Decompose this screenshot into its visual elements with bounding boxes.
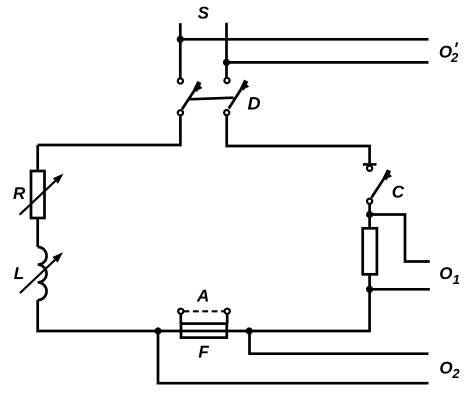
wire bus 1 (top line to O2') — [180, 38, 428, 41]
label O2 prime — [439, 42, 459, 65]
node junction below C — [366, 211, 373, 218]
svg-text:A: A — [196, 287, 209, 306]
resistor right branch — [363, 228, 377, 274]
switch D left blade — [182, 82, 202, 109]
node bottom junction left — [154, 327, 161, 334]
switch C blade — [371, 170, 392, 198]
svg-text:F: F — [198, 343, 209, 362]
wire bottom main — [37, 330, 370, 333]
wire from D left pivot to left rail — [38, 116, 181, 145]
svg-text:D: D — [248, 94, 261, 114]
label O1 — [439, 264, 460, 287]
wire from D right pivot to right rail — [227, 115, 370, 163]
wire S pole 2 vertical — [225, 23, 228, 77]
switch D upper-left contact — [178, 78, 183, 83]
wire O2 upper lead — [250, 331, 429, 354]
svg-text:L: L — [14, 264, 24, 283]
svg-text:C: C — [392, 182, 405, 201]
switch D lower-left pivot — [178, 110, 183, 115]
wire O1 upper lead — [370, 215, 430, 262]
node junction below resistor — [366, 286, 373, 293]
switch D right blade — [229, 81, 250, 109]
fuse F terminal stubs — [181, 315, 227, 324]
svg-text:1: 1 — [453, 272, 460, 287]
fuse F terminal left circle — [178, 309, 183, 314]
wire O2 lower lead — [158, 331, 429, 383]
wire bus 2 (second line to O2') — [227, 61, 429, 64]
node S pole 2 junction — [223, 59, 230, 66]
wire left rail upper — [36, 145, 39, 171]
wire O1 lower lead — [370, 288, 430, 291]
wire resistor to bottom — [368, 274, 371, 332]
switch D upper-right contact — [224, 78, 229, 83]
svg-text:2: 2 — [451, 366, 460, 381]
inductor L — [38, 247, 47, 300]
wire C pivot to resistor — [368, 205, 371, 229]
svg-text:O: O — [439, 358, 452, 377]
switch C pivot circle — [367, 199, 372, 204]
switch D link bar — [188, 98, 233, 100]
wire left rail lower — [36, 300, 39, 332]
resistor R — [31, 171, 45, 218]
inductor L arrow — [20, 252, 63, 293]
resistor R arrow — [20, 174, 64, 215]
svg-text:O: O — [439, 264, 452, 283]
node S pole 1 junction — [177, 36, 184, 43]
svg-text:R: R — [13, 184, 26, 203]
svg-text:2: 2 — [450, 50, 459, 65]
node bottom junction right — [246, 327, 253, 334]
svg-text:S: S — [198, 4, 210, 23]
label O2 — [439, 358, 460, 381]
fuse F terminal right circle — [225, 309, 230, 314]
wire S pole 1 vertical — [179, 23, 182, 78]
switch C fixed contact circle — [367, 166, 372, 171]
fuse F body — [181, 324, 227, 338]
wire dashed link A — [184, 310, 225, 312]
switch C fixed contact bar — [363, 163, 377, 166]
wire between R and L — [36, 218, 39, 247]
switch D lower-right pivot — [224, 110, 229, 115]
